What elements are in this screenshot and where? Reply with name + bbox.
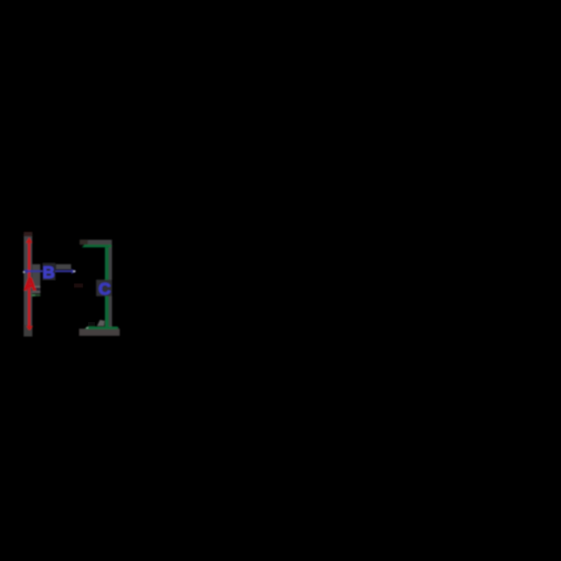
channel bottom bar (gray) (79, 329, 120, 336)
arrow B right arrowhead (72, 269, 77, 274)
channel top bar darker left end (80, 240, 88, 245)
left plate (gray vertical bar) (24, 234, 32, 337)
arrow A top arrowhead (26, 237, 33, 243)
white tip dot on bottom green line (86, 327, 88, 329)
dark green stripe right of A (32, 294, 41, 296)
dimension arrow A red line (28, 240, 31, 330)
medium gray stripe right of A (32, 291, 41, 293)
gray web column right of plate (32, 264, 40, 293)
svg-text:A: A (24, 274, 36, 294)
dimension arrow B blue line bright core (25, 271, 76, 272)
dark purple stripe right of A (33, 288, 40, 291)
faint maroon blob below B arrow (74, 283, 83, 287)
channel right vertical gray band (109, 245, 112, 330)
left plate dim maroon top cap (24, 232, 32, 237)
faint dark marks left of wedge (88, 322, 95, 326)
arrow B left tip white dot (23, 271, 25, 273)
svg-text:C: C (99, 279, 111, 298)
dimension arrow B blue line (24, 270, 76, 272)
arrow A bottom arrowhead (26, 326, 33, 330)
arrow B right tip white dot (73, 270, 75, 272)
green seal line top (82, 245, 112, 248)
arrow B left arrowhead (23, 269, 28, 273)
green seal line bottom (85, 327, 119, 330)
gray shelf segment between B badge and arrowhead (56, 264, 71, 269)
light gray wedge above bottom bar (97, 320, 105, 326)
light stripe right of A (34, 286, 40, 288)
left plate darker bottom segment (24, 325, 32, 337)
green seal line right vertical (105, 247, 109, 326)
dim green speck at plate top right (30, 232, 32, 236)
svg-text:B: B (43, 263, 55, 282)
dimension arrow A red line bright core (28, 240, 30, 329)
channel top bar (gray) (80, 240, 112, 245)
label B badge (43, 263, 56, 280)
bright green stub in stripe (32, 294, 35, 296)
label C badge (96, 280, 112, 297)
